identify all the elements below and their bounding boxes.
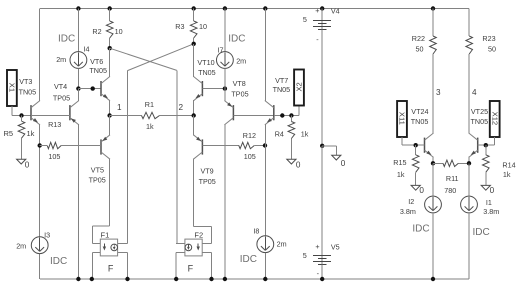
wire VT5 base from R13 (64, 145, 101, 147)
svg-text:10: 10 (115, 27, 123, 36)
wire VT10 collector (193, 44, 195, 77)
wire F1 lower-right pin (118, 253, 128, 279)
svg-text:+: + (315, 6, 319, 15)
resistor R1 (110, 100, 194, 131)
wire R11 junction to I1 (468, 163, 470, 196)
component box X2 (VT7 body) (294, 70, 304, 106)
svg-text:0: 0 (25, 160, 30, 169)
junction top rail / R22 (431, 6, 435, 10)
junction top rail / R3 (192, 6, 196, 10)
wire VT8 collector to bottom rail (224, 124, 226, 279)
current source I2 (400, 196, 442, 234)
svg-text:TP05: TP05 (199, 177, 216, 186)
svg-text:105: 105 (244, 152, 256, 161)
junction supply midpoint (320, 144, 324, 148)
svg-text:TP05: TP05 (89, 176, 106, 185)
svg-text:VT7: VT7 (275, 76, 288, 85)
ground R15 ground (411, 185, 424, 194)
svg-text:50: 50 (488, 44, 496, 53)
wire I7 to VT10 base junction (224, 69, 226, 89)
wire bottom power rail (40, 278, 469, 280)
wire F2 lower-right pin (202, 253, 211, 279)
svg-text:0: 0 (341, 159, 346, 168)
junction I4 / VT6 base (76, 86, 80, 90)
resistor R12 (202, 131, 265, 161)
wire VT7 base wire (274, 106, 299, 116)
svg-text:R22: R22 (412, 34, 425, 43)
svg-text:I7: I7 (218, 46, 224, 55)
ground R4 ground (287, 159, 301, 169)
battery V5 (303, 242, 340, 278)
svg-text:VT6: VT6 (90, 57, 103, 66)
svg-text:F2: F2 (194, 231, 203, 240)
svg-text:V5: V5 (331, 242, 340, 251)
junction F2 lower-left / bottom rail (174, 277, 178, 281)
wire VT7 emitter to I8 (264, 124, 266, 235)
svg-text:3.8m: 3.8m (483, 207, 499, 216)
junction VT7 base wire / R4 (289, 113, 293, 117)
resistor R11 (433, 160, 469, 195)
svg-text:2m: 2m (236, 57, 246, 66)
svg-text:3: 3 (436, 88, 441, 97)
svg-text:5: 5 (303, 251, 307, 260)
junction R2 / VT6 collector / cross wire (108, 46, 112, 50)
wire V5 to bottom rail (321, 265, 323, 280)
wire VT24 emitter to R11 junction (432, 157, 434, 164)
svg-text:TN05: TN05 (198, 68, 216, 77)
svg-text:TN05: TN05 (273, 85, 291, 94)
junction left rail / R13 (38, 143, 42, 147)
junction base net / R5 (19, 113, 23, 117)
svg-text:IDC: IDC (58, 34, 75, 45)
wire top rail to I7 (224, 9, 226, 52)
wire F2 upper-left pin (176, 243, 185, 245)
svg-text:2m: 2m (277, 239, 287, 248)
resistor R15 (393, 145, 419, 185)
svg-text:IDC: IDC (473, 227, 490, 238)
svg-text:5: 5 (303, 15, 307, 24)
wire VT4 collector to bottom rail (77, 124, 79, 279)
junction VT8 collector / bottom rail (223, 277, 227, 281)
junction VT6 base wire mid (91, 86, 95, 90)
svg-text:VT25: VT25 (471, 107, 488, 116)
wire I4 to VT6 base junction (77, 69, 79, 89)
component box X12 (VT25 body) (490, 101, 500, 137)
wire cross wire from R2 to F2 (110, 48, 177, 243)
wire VT25 emitter to R11 junction (468, 157, 470, 164)
svg-text:IDC: IDC (412, 224, 429, 235)
ground midpoint ground (332, 155, 346, 168)
wire V4 to midpoint (321, 30, 323, 146)
svg-text:1k: 1k (27, 129, 35, 138)
svg-text:V4: V4 (331, 6, 340, 15)
junction V5 / bottom rail (320, 277, 324, 281)
junction top rail / R2 (108, 6, 112, 10)
svg-text:2m: 2m (16, 242, 26, 251)
svg-text:I4: I4 (84, 45, 90, 54)
svg-text:4: 4 (472, 88, 477, 97)
svg-text:R23: R23 (482, 34, 495, 43)
svg-text:+: + (315, 242, 319, 251)
current source I4 (56, 34, 89, 69)
wire VT7 collector (264, 9, 266, 102)
transistor VT24 (411, 107, 434, 157)
resistor R4 (275, 116, 309, 160)
wire I8 to bottom rail (264, 253, 266, 279)
junction top rail / V4 (320, 6, 324, 10)
svg-text:R12: R12 (243, 131, 256, 140)
transistor VT25 (469, 107, 488, 157)
svg-text:F: F (108, 263, 114, 273)
junction R3 / VT10 collector / cross wire (192, 42, 196, 46)
wire VT3 box to base net (12, 106, 31, 116)
dependent source F1 (100, 230, 117, 273)
svg-text:VT3: VT3 (19, 77, 32, 86)
wire I7 junction to VT8 emitter (224, 89, 226, 102)
wire I3 to bottom rail (39, 254, 41, 279)
wire F1 upper-left pin (92, 243, 100, 245)
svg-text:0: 0 (296, 160, 301, 169)
svg-text:1k: 1k (397, 170, 405, 179)
current source I1 (461, 196, 500, 238)
svg-text:TP05: TP05 (53, 93, 70, 102)
svg-text:R15: R15 (393, 158, 406, 167)
svg-text:50: 50 (416, 44, 424, 53)
junction VT4 collector / bottom rail (76, 277, 80, 281)
junction VT25 base / R14 (484, 143, 488, 147)
wire top power rail (40, 8, 469, 10)
transistor VT8 (224, 79, 248, 125)
svg-text:R1: R1 (145, 100, 154, 109)
wire VT6 emitter to node 1 (109, 100, 111, 116)
junction top rail / VT7 collector (263, 6, 267, 10)
svg-text:105: 105 (48, 152, 60, 161)
svg-text:3.8m: 3.8m (400, 207, 416, 216)
junction I8 / bottom rail (263, 277, 267, 281)
svg-text:0: 0 (490, 186, 495, 195)
svg-text:0: 0 (419, 186, 424, 195)
junction top rail / I7 (223, 6, 227, 10)
svg-text:VT8: VT8 (233, 79, 246, 88)
current source I3 (16, 231, 67, 268)
wire left rail lower (VT3 emitter to I3) (39, 124, 41, 236)
ground R5 ground (17, 159, 30, 169)
junction F2 lower-right / bottom rail (209, 277, 213, 281)
wire R11 junction to I2 (432, 163, 434, 196)
svg-text:1: 1 (117, 103, 122, 112)
svg-text:VT5: VT5 (91, 165, 104, 174)
svg-text:R11: R11 (446, 174, 459, 183)
junction VT25 emitter / R11 (467, 161, 471, 165)
wire VT10 base wire (202, 88, 225, 90)
svg-text:TN05: TN05 (19, 87, 37, 96)
wire midpoint to ground (322, 146, 336, 155)
resistor R5 (4, 116, 35, 160)
transistor VT9 (193, 135, 215, 186)
wire F1 lower-left pin (92, 253, 100, 279)
svg-text:X1: X1 (7, 83, 16, 92)
resistor R23 (466, 34, 496, 134)
svg-text:X12: X12 (490, 112, 499, 126)
junction VT24 base / R15 (414, 143, 418, 147)
wire VT24 box to base (402, 137, 425, 145)
wire I4 junction to VT4 emitter (77, 89, 79, 102)
svg-text:R14: R14 (502, 160, 515, 169)
wire midpoint to V5 (321, 146, 323, 265)
transistor VT4 (53, 82, 79, 125)
svg-text:1k: 1k (146, 122, 154, 131)
svg-text:780: 780 (444, 186, 456, 195)
svg-text:2: 2 (179, 103, 184, 112)
junction F1 lower-right / bottom rail (125, 277, 129, 281)
svg-text:TP05: TP05 (231, 89, 248, 98)
transistor VT3 (19, 77, 40, 125)
junction F1 lower-left / bottom rail (90, 277, 94, 281)
svg-text:R5: R5 (4, 129, 14, 138)
svg-text:1k: 1k (301, 129, 309, 138)
svg-text:X2: X2 (294, 82, 303, 91)
svg-text:VT9: VT9 (201, 167, 214, 176)
junction VT24 emitter / R11 (431, 161, 435, 165)
wire top rail right drop (468, 9, 470, 37)
current source I8 (240, 226, 287, 265)
junction node 2 junction (192, 113, 196, 117)
battery V4 (303, 6, 340, 44)
component box X11 (VT24 body) (397, 101, 407, 137)
junction VT7 base wire a (280, 113, 284, 117)
transistor VT10 (193, 58, 215, 101)
svg-text:I8: I8 (253, 226, 259, 235)
wire I1 to bottom rail (468, 213, 470, 279)
junction VT10 base / I7 (223, 86, 227, 90)
junction I2 / bottom rail (431, 277, 435, 281)
svg-text:IDC: IDC (50, 256, 67, 267)
wire cross wire from R3 to F1 (128, 44, 194, 244)
wire node 2 to VT9 emitter (193, 116, 195, 136)
wire top rail to V4 (321, 9, 323, 30)
svg-text:R13: R13 (48, 120, 61, 129)
dependent source F2 (185, 231, 203, 274)
svg-text:VT24: VT24 (411, 107, 428, 116)
svg-text:VT4: VT4 (54, 82, 67, 91)
resistor R13 (40, 120, 101, 161)
resistor R22 (412, 9, 437, 134)
transistor VT7 (265, 76, 290, 125)
wire VT6 base wire (78, 88, 101, 90)
svg-text:1k: 1k (503, 170, 511, 179)
wire VT4 base wire (31, 115, 70, 117)
svg-text:R4: R4 (275, 129, 284, 138)
wire VT9 collector to F2 (194, 159, 212, 244)
resistor R3 (175, 9, 207, 44)
svg-text:R2: R2 (92, 27, 101, 36)
junction top rail / I4 (76, 6, 80, 10)
wire F2 lower-left pin (176, 253, 185, 279)
svg-text:IDC: IDC (240, 254, 257, 265)
svg-text:10: 10 (199, 22, 207, 31)
current source I7 (217, 33, 247, 68)
svg-text:TN05: TN05 (471, 117, 489, 126)
wire left rail upper (VT3 collector) (39, 9, 41, 102)
svg-text:IDC: IDC (228, 33, 245, 44)
svg-text:X11: X11 (398, 112, 407, 125)
wire VT8 base wire (233, 115, 273, 117)
svg-text:VT10: VT10 (197, 58, 214, 67)
wire VT5 collector to F1 (92, 159, 109, 244)
wire I2 to bottom rail (432, 213, 434, 279)
svg-text:TN05: TN05 (411, 117, 429, 126)
junction R12 / VT7 emitter (263, 143, 267, 147)
ground R14 ground (481, 185, 494, 194)
svg-text:2m: 2m (56, 55, 66, 64)
svg-text:I2: I2 (408, 197, 414, 206)
wire VT25 box to base (478, 137, 495, 145)
wire F1 upper-right pin (118, 243, 128, 245)
resistor R14 (483, 145, 516, 185)
wire top rail to I4 (77, 9, 79, 52)
resistor R2 (92, 9, 122, 49)
wire VT6 collector (109, 48, 111, 77)
wire VT10 emitter to node 2 (193, 100, 195, 116)
svg-text:F: F (188, 263, 194, 273)
svg-text:F1: F1 (101, 230, 110, 239)
junction node 1 junction (107, 113, 111, 117)
transistor VT5 (89, 135, 110, 185)
transistor VT6 (89, 57, 110, 101)
component box X1 (VT3 body) (7, 70, 17, 106)
svg-text:I1: I1 (486, 198, 492, 207)
wire node 1 to VT5 emitter (109, 116, 111, 136)
svg-text:TN05: TN05 (89, 66, 107, 75)
svg-text:I3: I3 (44, 231, 50, 240)
svg-text:R3: R3 (175, 22, 184, 31)
